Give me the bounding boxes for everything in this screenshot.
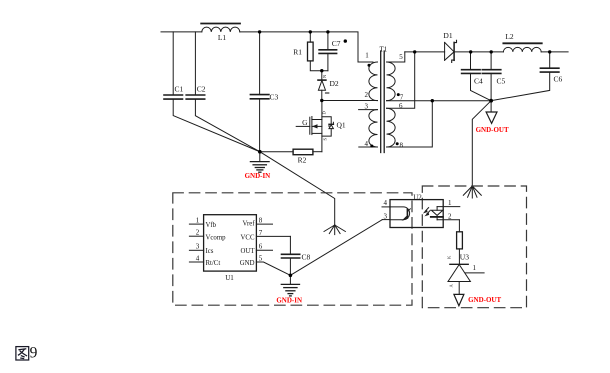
svg-text:C5: C5	[497, 76, 506, 85]
svg-text:S: S	[323, 138, 328, 141]
svg-text:L1: L1	[218, 33, 227, 42]
svg-text:9: 9	[30, 345, 38, 362]
svg-text:C6: C6	[554, 74, 563, 83]
svg-text:R2: R2	[298, 156, 307, 165]
svg-text:2: 2	[196, 229, 200, 237]
svg-text:5: 5	[259, 254, 263, 262]
svg-text:GND-IN: GND-IN	[276, 296, 302, 304]
svg-text:OUT: OUT	[241, 248, 256, 255]
svg-text:1: 1	[365, 52, 369, 60]
svg-text:U3: U3	[460, 253, 469, 262]
svg-text:U1: U1	[225, 274, 234, 282]
svg-text:7: 7	[259, 229, 263, 237]
svg-text:6: 6	[259, 243, 263, 251]
svg-text:2: 2	[365, 91, 369, 99]
svg-text:N: N	[322, 74, 327, 78]
svg-text:GND-OUT: GND-OUT	[476, 126, 509, 134]
svg-text:T1: T1	[380, 46, 388, 54]
svg-text:6: 6	[399, 102, 403, 110]
svg-text:4: 4	[384, 199, 388, 207]
svg-text:C4: C4	[474, 76, 483, 85]
svg-text:G: G	[302, 118, 308, 127]
svg-text:3: 3	[196, 243, 200, 251]
svg-text:4: 4	[196, 254, 200, 262]
svg-text:Vfb: Vfb	[206, 222, 217, 229]
svg-text:Rt/Ct: Rt/Ct	[206, 260, 221, 267]
svg-text:3: 3	[365, 103, 369, 111]
svg-text:R1: R1	[293, 48, 302, 57]
svg-text:1: 1	[473, 264, 477, 272]
svg-text:4: 4	[365, 140, 369, 148]
svg-text:5: 5	[399, 53, 403, 61]
svg-text:Vref: Vref	[242, 220, 255, 227]
svg-text:C1: C1	[175, 85, 184, 94]
svg-text:Q1: Q1	[337, 121, 346, 130]
svg-text:C7: C7	[332, 39, 341, 48]
svg-text:GND-IN: GND-IN	[245, 172, 271, 180]
svg-text:GND: GND	[240, 260, 255, 267]
svg-text:C3: C3	[270, 93, 279, 102]
svg-text:Vcomp: Vcomp	[206, 234, 227, 241]
svg-text:D2: D2	[330, 79, 339, 88]
svg-text:8: 8	[399, 142, 403, 150]
svg-text:D1: D1	[443, 31, 452, 40]
svg-text:K: K	[447, 255, 452, 259]
svg-text:A: A	[449, 284, 454, 288]
svg-text:7: 7	[400, 93, 404, 101]
svg-text:U2: U2	[413, 193, 422, 201]
svg-text:1: 1	[196, 217, 200, 225]
svg-text:3: 3	[384, 213, 388, 221]
svg-text:1: 1	[448, 199, 452, 207]
svg-text:C2: C2	[197, 85, 206, 94]
svg-text:Ics: Ics	[206, 248, 214, 255]
svg-text:VCC: VCC	[241, 234, 255, 241]
svg-text:2: 2	[448, 213, 452, 221]
svg-text:8: 8	[259, 217, 263, 225]
svg-text:GND-OUT: GND-OUT	[468, 296, 501, 304]
svg-text:L2: L2	[505, 32, 514, 41]
svg-text:C8: C8	[302, 252, 311, 261]
